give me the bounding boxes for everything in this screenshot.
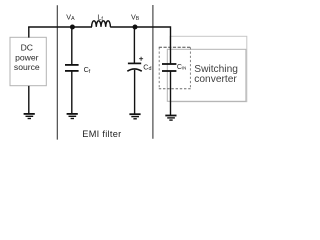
polarity + of Cd xyxy=(139,57,143,61)
capacitor Cd curved plate xyxy=(127,69,142,71)
wire node B to converter input xyxy=(135,27,171,64)
DC power source box xyxy=(10,37,46,85)
wire node B down to Cd xyxy=(133,27,135,63)
wire top: source to node A xyxy=(28,26,72,28)
svg-text:EMI filter: EMI filter xyxy=(82,129,121,139)
EMI filter left boundary line xyxy=(56,5,58,139)
wire node A to inductor xyxy=(72,26,92,28)
wire inductor to node B xyxy=(110,26,135,28)
svg-text:source: source xyxy=(14,62,40,72)
ground (DC source) xyxy=(24,114,35,119)
svg-text:DC: DC xyxy=(21,43,33,53)
capacitor Cd top plate xyxy=(128,62,141,64)
EMI filter right boundary line xyxy=(152,5,154,139)
wire DC source riser xyxy=(28,27,30,38)
node B xyxy=(133,25,138,30)
inductor Lf xyxy=(92,21,111,27)
svg-text:converter: converter xyxy=(194,74,237,85)
svg-text:power: power xyxy=(15,52,39,62)
ground (CIN) xyxy=(165,116,176,121)
wire Cf to ground xyxy=(71,71,73,114)
wire node A down to Cf xyxy=(71,27,73,65)
switching converter outer box xyxy=(170,36,247,101)
ground (Cd) xyxy=(129,114,140,119)
capacitor Cf xyxy=(65,65,79,71)
ground (Cf) xyxy=(67,114,78,119)
wire Cd to ground xyxy=(134,70,136,114)
node A xyxy=(70,25,75,30)
CIN dashed enclosure xyxy=(159,47,191,88)
svg-text:CIN: CIN xyxy=(177,64,186,71)
switching converter box xyxy=(167,49,246,101)
wire DC source to ground xyxy=(28,86,30,114)
wire CIN to ground xyxy=(170,71,172,115)
capacitor CIN xyxy=(162,64,176,71)
